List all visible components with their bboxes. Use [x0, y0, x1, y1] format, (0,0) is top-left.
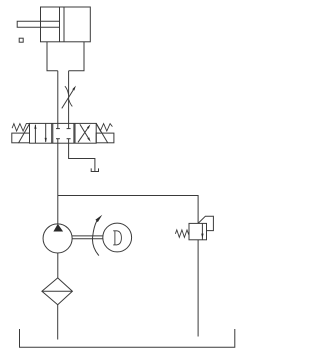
tank symbol T1: [91, 168, 98, 171]
valve V1 left box up arrow: [34, 125, 36, 143]
wire T branch: [69, 143, 95, 171]
pump P1 outlet triangle: [53, 224, 63, 232]
motor M1 letter D: [113, 231, 121, 245]
wire rail to relief valve: [58, 196, 198, 224]
wire P (valve to pump junction): [57, 143, 59, 195]
motor M1 circle: [103, 223, 132, 252]
throttle valve F1 adjust arrow: [62, 90, 74, 109]
solenoid Y1 diagonal: [19, 123, 30, 143]
wire pump riser: [57, 196, 59, 224]
throttle valve F1 arcs: [65, 86, 69, 94]
solenoid Y2 right box: [96, 133, 114, 143]
spring left: [12, 123, 29, 131]
wire pump to filter: [57, 253, 59, 278]
valve V1 body: [30, 123, 97, 143]
spring right: [96, 123, 112, 131]
reservoir tank: [20, 329, 235, 347]
valve V1 right box crossed arrow 1: [78, 128, 88, 142]
relief valve RV1 pilot loop: [198, 216, 213, 230]
filter FL1 diamond: [42, 278, 73, 305]
wire B (cylinder to valve through throttle): [68, 71, 70, 124]
cylinder mount funnel right: [69, 42, 84, 71]
solenoid Y2 diagonal: [96, 123, 108, 143]
relief valve RV1 inner line and arrow: [201, 223, 203, 239]
valve V1 separator 2: [73, 123, 75, 143]
cylinder C1 piston: [59, 7, 61, 42]
valve V1 separator 1: [51, 123, 53, 143]
cylinder mount funnel left: [47, 42, 58, 71]
relief valve RV1 spring: [175, 230, 189, 238]
wire A (cylinder to valve): [57, 71, 59, 124]
wire filter to tank: [57, 305, 59, 340]
solenoid Y1 left box: [12, 133, 30, 143]
cylinder C1 rod: [17, 21, 59, 27]
port marker square: [19, 38, 23, 42]
valve V1 right box crossed arrow 2: [80, 124, 88, 138]
filter FL1 mid line: [42, 290, 73, 292]
wire relief to tank: [197, 240, 199, 337]
valve V1 left box down arrow: [45, 124, 47, 142]
valve V1 center box closed port stubs top: [57, 123, 59, 128]
valve V1 center box closed port stubs bottom: [57, 139, 59, 144]
shaft pump to motor: [72, 235, 103, 237]
relief valve RV1 body: [189, 223, 207, 239]
rotation arrow arc: [92, 221, 98, 256]
pump P1 circle: [43, 224, 72, 253]
cylinder C1 body: [41, 7, 91, 42]
